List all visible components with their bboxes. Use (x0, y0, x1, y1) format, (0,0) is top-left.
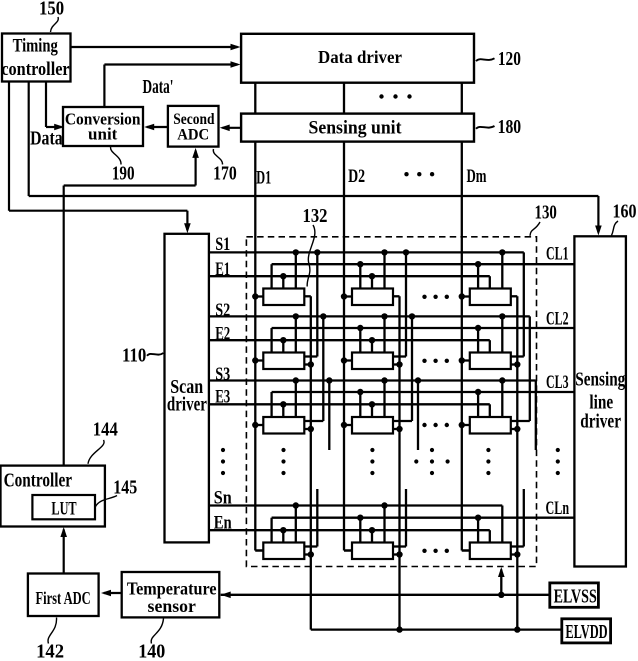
svg-text:CL2: CL2 (546, 309, 569, 329)
svg-text:150: 150 (39, 0, 64, 19)
svg-text:Data': Data' (143, 76, 174, 98)
svg-text:CL3: CL3 (546, 373, 569, 393)
svg-text:160: 160 (613, 201, 637, 223)
svg-text:Sensing unit: Sensing unit (309, 118, 403, 138)
svg-text:142: 142 (36, 640, 64, 661)
svg-text:ELVSS: ELVSS (554, 586, 597, 608)
svg-text:En: En (214, 513, 233, 533)
svg-text:driver: driver (580, 412, 621, 433)
svg-text:sensor: sensor (148, 596, 197, 616)
svg-text:D1: D1 (256, 168, 271, 188)
svg-text:S1: S1 (215, 235, 230, 255)
svg-text:Sn: Sn (214, 489, 233, 509)
svg-text:S2: S2 (215, 301, 230, 321)
svg-text:190: 190 (112, 163, 135, 185)
svg-text:Timing: Timing (13, 36, 59, 57)
svg-text:E3: E3 (215, 388, 230, 408)
svg-text:144: 144 (93, 419, 118, 441)
svg-text:132: 132 (303, 205, 328, 227)
svg-text:controller: controller (1, 59, 70, 80)
svg-text:110: 110 (122, 344, 146, 366)
svg-text:130: 130 (535, 202, 557, 224)
svg-text:Data driver: Data driver (318, 47, 402, 67)
svg-text:ELVDD: ELVDD (565, 621, 607, 643)
svg-text:180: 180 (498, 116, 522, 138)
svg-text:Sensing: Sensing (575, 369, 625, 390)
svg-text:driver: driver (167, 395, 207, 416)
svg-text:120: 120 (498, 48, 521, 70)
svg-text:S3: S3 (215, 365, 230, 385)
svg-text:LUT: LUT (51, 498, 76, 519)
svg-text:First ADC: First ADC (36, 588, 91, 608)
svg-text:145: 145 (113, 477, 137, 499)
svg-text:CL1: CL1 (546, 244, 569, 264)
svg-text:Dm: Dm (467, 167, 487, 187)
svg-text:E2: E2 (215, 325, 230, 345)
svg-text:E1: E1 (215, 260, 230, 280)
svg-text:Controller: Controller (4, 471, 73, 492)
svg-text:unit: unit (88, 125, 118, 144)
svg-text:170: 170 (213, 163, 237, 185)
svg-text:CLn: CLn (546, 499, 570, 519)
svg-text:D2: D2 (348, 167, 365, 187)
svg-text:Data: Data (30, 128, 63, 150)
svg-text:140: 140 (138, 640, 165, 661)
svg-text:ADC: ADC (177, 126, 209, 143)
svg-text:line: line (589, 393, 613, 414)
